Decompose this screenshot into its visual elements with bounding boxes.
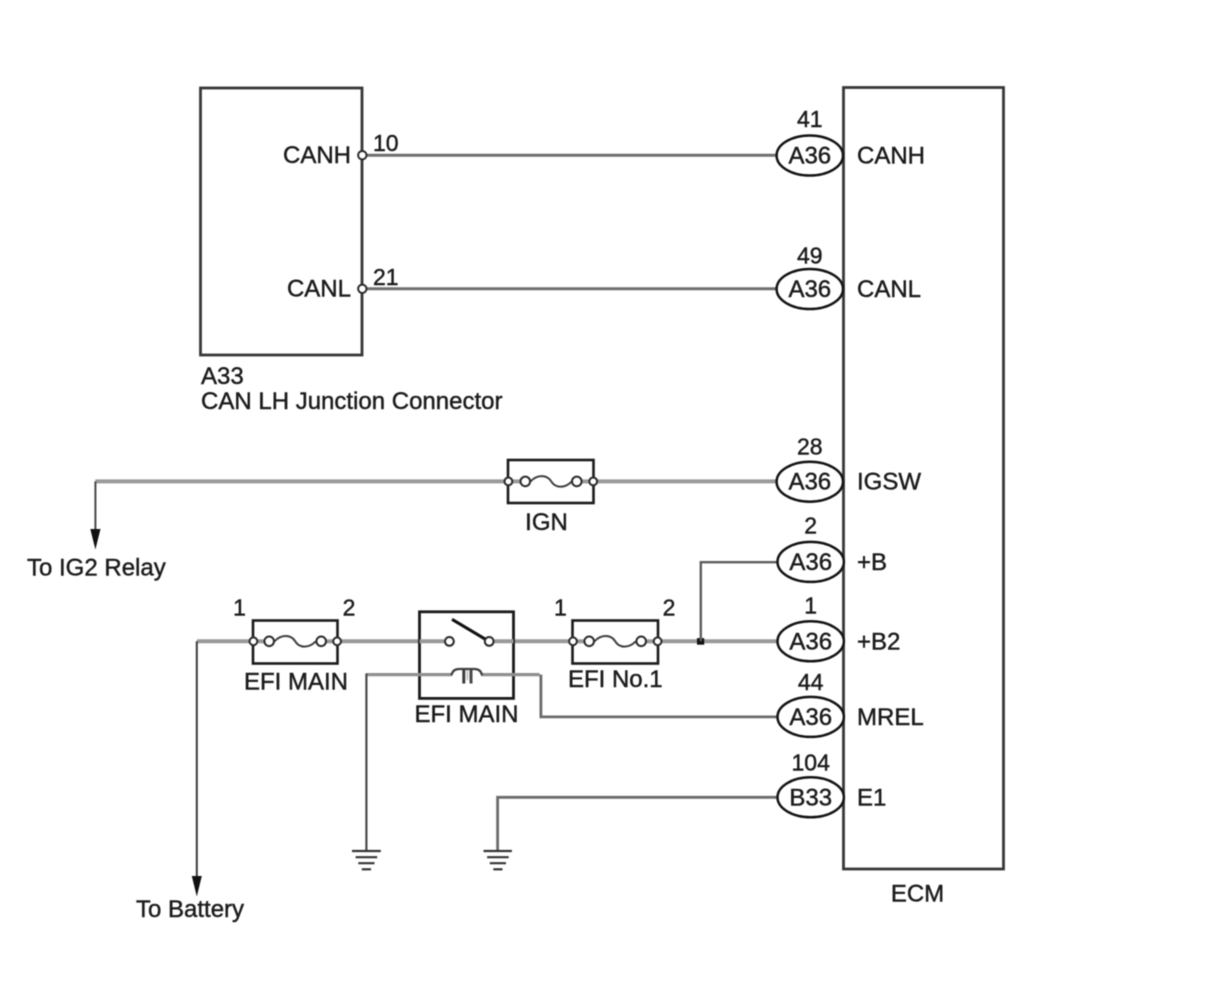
fuse element wave (EFI MAIN) [275,636,316,647]
svg-text:1: 1 [233,595,246,621]
junction connector A33 box [201,88,363,355]
svg-text:To IG2 Relay: To IG2 Relay [27,555,166,582]
relay coil [420,673,453,676]
svg-text:IGN: IGN [525,509,568,536]
svg-text:1: 1 [554,595,567,621]
fuse element wave (EFI No.1) [595,636,636,647]
connector B33 pin 104 (E1) [778,749,844,817]
ground (relay coil) [352,851,381,869]
ECM box [844,88,1004,870]
branch wire to +B [701,562,777,641]
svg-text:IGSW: IGSW [857,469,921,496]
fuse terminals (IGN) [505,478,513,486]
svg-text:CANH: CANH [857,143,925,170]
svg-text:104: 104 [792,749,831,775]
svg-text:A36: A36 [789,549,832,576]
svg-text:1: 1 [804,593,817,619]
svg-text:A36: A36 [789,628,832,655]
svg-text:A36: A36 [788,143,831,170]
svg-text:EFI MAIN: EFI MAIN [414,701,518,728]
svg-text:CANH: CANH [283,142,351,169]
svg-text:+B: +B [857,549,887,576]
svg-text:+B2: +B2 [857,628,900,655]
arrow to battery [192,641,202,896]
ground (E1) [484,851,512,869]
svg-text:A36: A36 [788,469,831,496]
svg-text:EFI No.1: EFI No.1 [568,666,663,693]
svg-text:E1: E1 [857,784,886,811]
fuse terminals (EFI MAIN) [250,637,258,645]
svg-text:10: 10 [373,130,399,156]
svg-text:A36: A36 [788,276,831,303]
connector oval A36 [778,542,844,582]
fuse terminals (EFI No.1) [569,637,577,645]
svg-text:2: 2 [663,595,676,621]
connector oval A36 [778,621,844,661]
wire CANH (A33 pin10 to ECM A36-41) [366,154,777,157]
fuse IGN [505,460,598,503]
connector A36 pin 28 (IGSW) [777,434,843,502]
pin 21 terminal circle [358,285,366,293]
relay EFI MAIN [420,612,514,699]
wire CANL (A33 pin21 to ECM A36-49) [366,287,777,290]
svg-text:CANL: CANL [287,276,351,303]
connector A36 pin 1 (+B2) [778,593,844,662]
svg-text:21: 21 [373,264,399,290]
svg-text:To Battery: To Battery [136,896,244,923]
svg-text:49: 49 [797,243,823,269]
connector oval B33 [778,777,844,817]
wire E1 to ground [498,797,777,850]
connector oval A36 [777,136,843,176]
relay switch contact circles [445,637,454,646]
connector oval A36 [777,269,843,309]
svg-text:44: 44 [798,669,824,695]
wire MREL (relay coil to ECM A36-44) [514,673,540,676]
connector A36 pin 49 (CANL) [777,243,843,310]
wire relay coil to ground [366,673,419,676]
svg-text:B33: B33 [789,784,832,811]
connector oval A36 [778,697,844,737]
svg-text:A33: A33 [201,363,244,390]
svg-text:2: 2 [343,595,356,621]
svg-text:28: 28 [797,434,823,460]
svg-text:MREL: MREL [857,704,924,731]
svg-text:CANL: CANL [857,276,921,303]
wire +B2 battery feed (through EFI MAIN fuse, relay, EFI No.1 fuse) [197,639,777,643]
connector A36 pin 2 (+B) [778,513,844,582]
connector oval A36 [777,462,843,502]
wire IGSW (through IGN fuse to ECM A36-28) [95,479,776,483]
fuse EFI MAIN [250,621,342,664]
pin 10 terminal circle [358,151,366,159]
svg-text:CAN LH Junction Connector: CAN LH Junction Connector [201,388,502,415]
svg-text:A36: A36 [789,704,832,731]
arrow to IG2 relay [90,481,100,549]
svg-text:EFI MAIN: EFI MAIN [244,669,348,696]
relay switch blade [452,619,485,639]
svg-text:41: 41 [797,106,823,132]
connector A36 pin 41 (CANH) [777,106,843,176]
fuse EFI No.1 [569,621,661,664]
svg-text:2: 2 [804,513,817,539]
fuse element wave (IGN) [531,476,572,487]
junction node dot on +B2 wire [697,638,704,645]
connector A36 pin 44 (MREL) [778,669,844,737]
svg-text:ECM: ECM [891,881,944,908]
